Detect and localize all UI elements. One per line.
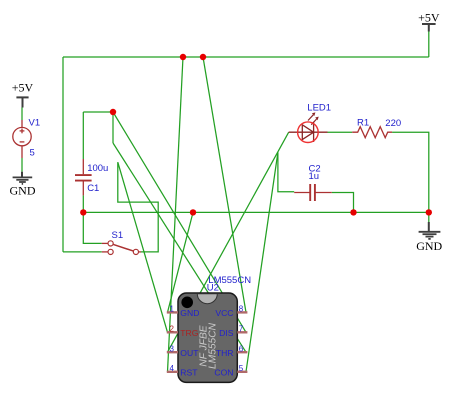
wire LED corner to OUT pin3 bbox=[168, 132, 289, 352]
wire node to THR pin6 bbox=[113, 143, 246, 352]
wire S1 lower-left to rail bbox=[63, 251, 102, 253]
svg-text:5: 5 bbox=[239, 364, 244, 373]
svg-text:+5V: +5V bbox=[12, 81, 34, 95]
wire C1 top node horizontal bbox=[83, 111, 113, 113]
wire left rail vertical bbox=[62, 57, 64, 252]
wire R1 right to ground rail bbox=[392, 132, 429, 212]
svg-text:TRG: TRG bbox=[180, 328, 198, 338]
svg-text:LED1: LED1 bbox=[307, 103, 331, 114]
switch S1 bbox=[102, 241, 141, 255]
wire C2 right to ground rail bbox=[332, 193, 354, 213]
svg-text:GND: GND bbox=[10, 183, 36, 197]
wire gnd stub below dot bbox=[428, 212, 430, 222]
svg-text:5: 5 bbox=[30, 147, 35, 158]
node C1 bottom bbox=[80, 209, 86, 215]
svg-text:2: 2 bbox=[170, 325, 175, 334]
ground symbol left bbox=[13, 172, 33, 184]
wire C2 left branch bbox=[278, 152, 294, 191]
wire C1 bottom to ground rail bbox=[82, 195, 84, 212]
svg-text:OUT: OUT bbox=[180, 348, 199, 358]
node gnd symbol bbox=[426, 209, 432, 215]
svg-text:4: 4 bbox=[170, 364, 175, 373]
resistor R1 bbox=[352, 127, 392, 138]
svg-text:THR: THR bbox=[216, 348, 234, 358]
wire LED node to CON pin5 bbox=[246, 152, 278, 371]
power +5V symbol right bbox=[422, 24, 436, 32]
svg-text:GND: GND bbox=[180, 308, 199, 318]
wire ground dot to GND pin1 bbox=[168, 212, 194, 312]
wire V1 bottom bbox=[21, 158, 23, 172]
svg-text:8: 8 bbox=[239, 305, 244, 314]
wire C1 top vertical bbox=[82, 112, 84, 159]
IC U2 LM555CN (555 timer) bbox=[167, 293, 248, 382]
svg-text:+5V: +5V bbox=[418, 11, 440, 25]
node C2 right bbox=[350, 209, 356, 215]
wire rail dot to RST pin4 bbox=[168, 57, 184, 372]
svg-text:VCC: VCC bbox=[215, 308, 233, 318]
node C1 top bbox=[110, 109, 116, 115]
wire V1 top bbox=[21, 108, 23, 121]
wire rail dot to VCC pin8 bbox=[203, 57, 246, 312]
voltage source V1 bbox=[13, 120, 31, 158]
ground symbol right bbox=[419, 222, 441, 239]
wire S1 right to TRG node bbox=[118, 162, 158, 252]
capacitor C1 bbox=[75, 159, 92, 195]
svg-text:3: 3 bbox=[170, 345, 175, 354]
svg-text:RST: RST bbox=[180, 367, 198, 377]
power +5V symbol left bbox=[16, 97, 28, 107]
svg-text:V1: V1 bbox=[29, 118, 41, 129]
svg-text:6: 6 bbox=[239, 345, 244, 354]
wire node stub below junction bbox=[112, 112, 114, 143]
node gnd-pin1 bbox=[190, 209, 196, 215]
wire S1 node to TRG pin2 bbox=[118, 162, 168, 332]
svg-text:100u: 100u bbox=[87, 163, 108, 174]
pin stubs bbox=[167, 312, 248, 371]
wire right +5V drop bbox=[428, 31, 430, 57]
svg-text:1: 1 bbox=[170, 305, 175, 314]
capacitor C2 bbox=[294, 184, 332, 201]
svg-text:1u: 1u bbox=[309, 171, 320, 182]
node rail-VCC bbox=[200, 54, 206, 60]
LED LED1 bbox=[289, 112, 328, 142]
wire top +5V rail bbox=[63, 56, 429, 58]
svg-text:C1: C1 bbox=[87, 183, 99, 194]
svg-text:U2: U2 bbox=[207, 282, 219, 293]
svg-text:7: 7 bbox=[239, 325, 244, 334]
svg-text:DIS: DIS bbox=[219, 328, 234, 338]
svg-text:LM555CN: LM555CN bbox=[207, 322, 218, 369]
svg-text:GND: GND bbox=[416, 239, 442, 253]
wire junction to DIS pin7 bbox=[113, 112, 246, 332]
wire LED to R1 bbox=[328, 131, 353, 133]
wire ground rail bbox=[83, 211, 429, 213]
wire S1 upper-left branch bbox=[83, 212, 102, 243]
node rail-RST bbox=[180, 54, 186, 60]
svg-text:S1: S1 bbox=[112, 230, 124, 241]
svg-text:220: 220 bbox=[385, 118, 401, 129]
svg-text:R1: R1 bbox=[357, 117, 369, 128]
